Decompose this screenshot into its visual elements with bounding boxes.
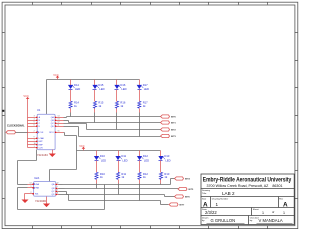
svg-text:BIT2: BIT2: [171, 130, 177, 132]
svg-text:RCO: RCO: [49, 132, 54, 134]
svg-text:BIT4: BIT4: [185, 178, 191, 181]
svg-text:BIT1: BIT1: [171, 123, 177, 125]
svg-text:of: of: [272, 210, 274, 214]
svg-text:R13: R13: [164, 172, 169, 176]
svg-text:Drawing: Drawing: [202, 189, 211, 192]
svg-text:V MANDALA: V MANDALA: [259, 218, 283, 223]
svg-text:R14: R14: [74, 101, 79, 105]
svg-text:9: 9: [34, 137, 35, 139]
svg-text:D16: D16: [120, 83, 125, 87]
svg-text:Sheet: Sheet: [253, 208, 259, 211]
svg-text:9: 9: [57, 187, 58, 189]
svg-text:BIT3: BIT3: [171, 136, 177, 138]
svg-text:LED: LED: [121, 87, 126, 91]
svg-text:3: 3: [34, 116, 35, 118]
svg-text:R11: R11: [121, 172, 126, 176]
svg-text:U2A: U2A: [34, 176, 39, 180]
svg-text:LOAD: LOAD: [39, 137, 45, 140]
svg-text:Title:: Title:: [202, 192, 207, 195]
svg-text:1: 1: [31, 186, 32, 188]
svg-text:R10: R10: [100, 172, 105, 176]
svg-text:2: 2: [34, 131, 35, 133]
svg-text:D14: D14: [74, 83, 79, 87]
svg-text:CLR: CLR: [39, 148, 44, 150]
svg-text:74LS93D: 74LS93D: [35, 199, 46, 203]
svg-text:D11: D11: [121, 154, 126, 158]
svg-text:12: 12: [58, 122, 60, 124]
svg-text:LAB 2: LAB 2: [222, 191, 235, 196]
svg-text:D10: D10: [100, 154, 105, 158]
svg-text:12: 12: [57, 183, 59, 185]
svg-text:11: 11: [58, 124, 60, 126]
svg-text:2: 2: [31, 192, 32, 194]
svg-text:LED: LED: [122, 158, 127, 162]
svg-text:R16: R16: [120, 101, 125, 105]
svg-text:CLK: CLK: [40, 132, 45, 134]
svg-text:R17: R17: [143, 101, 148, 105]
svg-text:Drawn: Drawn: [202, 216, 209, 219]
svg-text:R15: R15: [98, 101, 103, 105]
svg-text:LED: LED: [99, 87, 104, 91]
svg-text:D17: D17: [143, 83, 148, 87]
svg-text:LED: LED: [75, 87, 80, 91]
svg-text:BIT0: BIT0: [171, 117, 177, 119]
svg-text:by:: by:: [202, 220, 205, 222]
svg-text:1: 1: [34, 146, 35, 148]
svg-text:15: 15: [58, 131, 60, 133]
svg-text:U1: U1: [37, 108, 41, 112]
svg-text:BIT7: BIT7: [180, 205, 186, 207]
svg-text:14: 14: [30, 183, 32, 185]
svg-text:Drawing Number: Drawing Number: [212, 197, 229, 200]
svg-text:13: 13: [58, 119, 60, 121]
svg-text:ENP: ENP: [39, 144, 44, 146]
svg-text:BIT6: BIT6: [185, 197, 191, 199]
svg-text:7: 7: [34, 140, 35, 142]
svg-text:3700 Willow Creek Road, Presco: 3700 Willow Creek Road, Prescott, AZ 863…: [207, 183, 284, 188]
svg-text:5: 5: [34, 122, 35, 124]
svg-text:11: 11: [57, 193, 59, 195]
svg-text:LED: LED: [144, 87, 149, 91]
svg-text:BIT5: BIT5: [189, 189, 195, 191]
svg-text:D15: D15: [98, 83, 103, 87]
svg-text:R01: R01: [35, 194, 38, 196]
svg-text:74LS163: 74LS163: [37, 153, 48, 157]
svg-text:4: 4: [34, 119, 35, 121]
svg-text:LED: LED: [144, 158, 149, 162]
svg-text:14: 14: [58, 116, 60, 118]
svg-text:6: 6: [34, 124, 35, 126]
svg-text:LED: LED: [165, 158, 170, 162]
svg-text:CLOCKSIGNAL: CLOCKSIGNAL: [7, 125, 25, 128]
svg-text:2/3/22: 2/3/22: [205, 210, 217, 215]
svg-text:1: 1: [283, 211, 285, 215]
svg-text:R12: R12: [143, 172, 148, 176]
svg-text:1: 1: [262, 211, 264, 215]
svg-text:LED: LED: [101, 158, 106, 162]
svg-text:8: 8: [57, 190, 58, 192]
svg-text:G GRULLON: G GRULLON: [211, 218, 236, 223]
svg-text:1: 1: [216, 202, 219, 207]
svg-text:by:: by:: [250, 220, 253, 222]
svg-text:D12: D12: [143, 154, 148, 158]
svg-text:D13: D13: [164, 154, 169, 158]
svg-text:10: 10: [34, 143, 36, 145]
